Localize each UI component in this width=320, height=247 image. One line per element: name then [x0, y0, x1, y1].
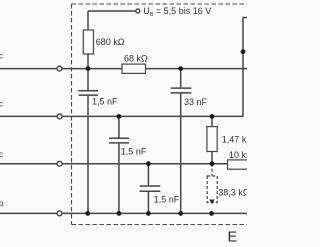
wire 680k bottom lead	[87, 54, 89, 69]
terminal input 3	[57, 161, 62, 166]
node GND-C1	[85, 211, 90, 216]
wire ground rail	[0, 212, 57, 214]
wire input 2 across	[62, 115, 243, 117]
wire 680k top lead	[87, 11, 89, 30]
svg-text:33 nF: 33 nF	[184, 97, 208, 107]
node W3-C3	[146, 161, 151, 166]
capacitor C1 1,5 nF top lead	[87, 69, 89, 91]
terminal input 2	[57, 114, 62, 119]
node W1-C4	[178, 66, 183, 71]
wire input 3 across	[62, 163, 227, 165]
wire ground rail across	[62, 212, 247, 214]
svg-text:E: E	[228, 230, 238, 246]
node W1-R1	[86, 66, 91, 71]
svg-text:1,47 kΩ: 1,47 kΩ	[222, 134, 247, 144]
resistor 68 kOhm	[122, 64, 146, 73]
node GND-C3	[146, 211, 151, 216]
wire R2 to right edge	[146, 68, 248, 70]
terminal input 1	[57, 66, 62, 71]
resistor 10 kOhm	[228, 160, 252, 169]
node GND-R5	[209, 211, 214, 216]
svg-text:UB = 5,5 bis 16 V: UB = 5,5 bis 16 V	[143, 6, 211, 18]
svg-text:38,3 kΩ: 38,3 kΩ	[218, 188, 247, 198]
capacitor C2 bottom lead	[118, 143, 120, 214]
svg-text:68 kΩ: 68 kΩ	[124, 53, 148, 63]
wire input 1	[0, 68, 57, 70]
node W2-R3	[210, 114, 215, 119]
capacitor C1 plates	[79, 91, 99, 95]
wire input 3	[0, 163, 57, 165]
wire supply rail top	[88, 10, 135, 12]
node GND-C2	[117, 211, 122, 216]
resistor 680 kOhm	[83, 30, 93, 54]
capacitor C2 plates	[109, 138, 129, 143]
svg-text:10 kΩ: 10 kΩ	[229, 150, 247, 160]
capacitor C4 bottom lead	[180, 93, 182, 213]
svg-text:c: c	[0, 52, 3, 61]
capacitor C4 plates	[171, 88, 192, 93]
wire right riser to IC	[243, 18, 247, 117]
node W3-R3-R4	[210, 161, 215, 166]
resistor 1,47 kOhm	[207, 127, 217, 152]
capacitor C3 1,5 nF top lead	[147, 164, 149, 186]
capacitor C3 plates	[140, 186, 161, 191]
svg-text:1,5 nF: 1,5 nF	[154, 194, 180, 204]
svg-text:1,5 nF: 1,5 nF	[92, 96, 118, 106]
resistor 38,3 kOhm arrowhead	[209, 200, 214, 205]
svg-text:c: c	[0, 150, 3, 159]
resistor 38,3 kOhm dashed body	[207, 176, 217, 203]
node W2-C2	[117, 114, 122, 119]
svg-text:o: o	[0, 199, 4, 208]
capacitor C3 bottom lead	[147, 191, 149, 213]
terminal Ub	[136, 9, 140, 13]
resistor 38,3 kOhm dashed lead	[211, 164, 213, 176]
svg-text:1,5 nF: 1,5 nF	[121, 147, 147, 157]
capacitor C4 33 nF top lead	[180, 69, 182, 88]
node IC pin	[241, 49, 246, 54]
capacitor C2 1,5 nF top lead	[118, 116, 120, 138]
svg-text:c: c	[0, 100, 3, 109]
wire input 2	[0, 115, 57, 117]
terminal ground	[57, 211, 62, 216]
svg-text:680 kΩ: 680 kΩ	[96, 37, 125, 47]
resistor 1,47 kOhm bottom lead	[211, 152, 213, 164]
dashed enclosure border	[71, 4, 73, 225]
resistor 1,47 kOhm top lead	[211, 116, 213, 126]
node GND-C4	[178, 211, 183, 216]
capacitor C1 bottom lead	[87, 95, 89, 213]
wire input 1 to R2	[62, 68, 122, 70]
